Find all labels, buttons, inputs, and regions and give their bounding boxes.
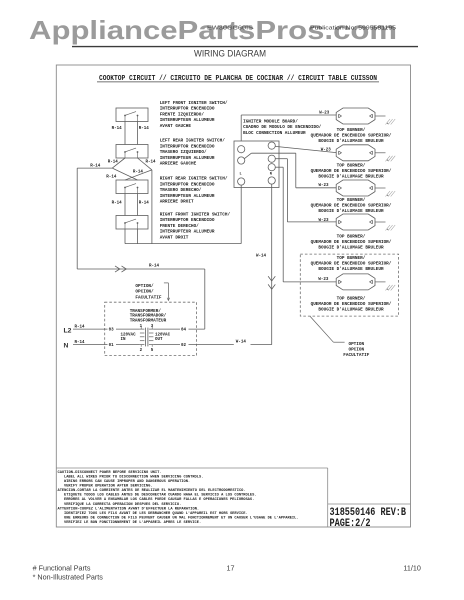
wire W-23 board to burner E1 [241,115,336,141]
switch SW3 right rear igniter switch [116,180,148,194]
svg-text:L2: L2 [64,328,72,335]
svg-text:INTERRUPTEUR ALLUMEUR: INTERRUPTEUR ALLUMEUR [160,156,215,161]
svg-text:FRENTE IZQUIERDO/: FRENTE IZQUIERDO/ [160,112,205,117]
svg-text:IGNITER MODULE BOARD/: IGNITER MODULE BOARD/ [243,119,298,124]
footnote non-illustrated parts [33,573,104,582]
transformer dashed enclosure [105,302,197,355]
title COOKTOP CIRCUIT [97,75,379,83]
svg-text:CUADRO DE MODULO DE ENCENDIDO/: CUADRO DE MODULO DE ENCENDIDO/ [243,125,322,130]
label text igniter module board [243,119,322,136]
svg-text:04: 04 [181,329,187,333]
watermark logo AppliancePartsPros.com [29,15,397,45]
wire switch SW1 to SW2 [125,122,138,145]
svg-text:W-23: W-23 [319,184,330,188]
terminal labels 03 01 04 02 [109,329,187,349]
svg-text:BOUGIE D'ALLUMAGE BRULEUR: BOUGIE D'ALLUMAGE BRULEUR [318,209,384,214]
footnote functional parts [33,563,91,572]
svg-text:INTERRUPTOR ENCENDIDO: INTERRUPTOR ENCENDIDO [160,182,215,187]
svg-text:EW30GC60IS: EW30GC60IS [207,26,253,32]
label text burner E1 [311,128,392,144]
burner igniter E2 top burner [336,145,395,162]
svg-text:QUEMADOR DE ENCENDIDO SUPERIOR: QUEMADOR DE ENCENDIDO SUPERIOR/ [311,262,392,267]
svg-text:INTERRUPTOR ENCENDIDO: INTERRUPTOR ENCENDIDO [160,107,215,112]
svg-text:03: 03 [109,329,115,333]
right rail wire from crossover [151,170,153,244]
svg-text:FACULTATIF: FACULTATIF [343,353,369,358]
wire label W-23 [319,111,330,115]
svg-text:TOP BURNER/: TOP BURNER/ [337,198,366,203]
svg-text:OPCION: OPCION [348,348,364,353]
svg-text:LEFT FRONT IGNITER SWITCH/: LEFT FRONT IGNITER SWITCH/ [160,101,228,106]
terminal label N [270,173,272,177]
wire label W-23 [319,219,330,223]
label text burner E4 [311,235,392,251]
label text for switch SW2 [160,139,226,167]
svg-text:BOUGIE D'ALLUMAGE BRULEUR: BOUGIE D'ALLUMAGE BRULEUR [318,267,384,272]
svg-text:IDENTIFIEZ TOUS LES FILS AVANT: IDENTIFIEZ TOUS LES FILS AVANT DE LES DE… [64,511,248,516]
svg-text:* Non-Illustrated Parts: * Non-Illustrated Parts [33,573,104,582]
leader line to option note [310,316,345,342]
svg-text:R-14: R-14 [139,202,150,206]
svg-text:120VAC: 120VAC [155,333,171,337]
wire transformer 02 output W-14 [153,340,271,344]
svg-text:OPCION/: OPCION/ [135,290,154,295]
svg-text:R-14: R-14 [149,265,160,269]
svg-text:VERIFY PROPER OPERATION AFTER: VERIFY PROPER OPERATION AFTER SERVICING. [64,485,153,489]
svg-text:OPTION/: OPTION/ [135,284,154,289]
svg-text:LEFT REAR IGNITER SWITCH/: LEFT REAR IGNITER SWITCH/ [160,139,226,144]
svg-text:UNE ERREURS DE CONNECTION DE F: UNE ERREURS DE CONNECTION DE FILS PEUVEN… [64,515,299,520]
svg-text:R-14: R-14 [108,161,119,165]
transformer T1 winding symbol [140,327,154,347]
wire W-23 board to burner E4 [275,159,336,222]
switch SW2 left rear igniter switch [116,145,148,159]
bottom rail wire to module board L [125,185,241,243]
svg-text:02: 02 [181,344,187,348]
svg-text:BOUGIE D'ALLUMAGE BRULEUR: BOUGIE D'ALLUMAGE BRULEUR [318,307,384,312]
connector arrows on W-14 wire [268,276,275,289]
wire transformer 04 output [153,328,204,330]
connector arrows on wire [115,266,126,272]
svg-text:N: N [64,342,69,349]
svg-text:W-23: W-23 [318,278,329,282]
svg-text:LABEL ALL WIRES PRIOR TO DISCO: LABEL ALL WIRES PRIOR TO DISCONNECTION W… [64,475,203,479]
label text burner E3 [311,198,392,214]
svg-text:R-14: R-14 [112,202,123,206]
label text burner E5 upper [311,256,392,272]
svg-text:ARRIERE GAUCHE: ARRIERE GAUCHE [160,162,197,167]
svg-text:R-14: R-14 [106,176,117,180]
svg-text:FRENTE DERECHO/: FRENTE DERECHO/ [160,224,199,229]
svg-text:QUEMADOR DE ENCENDIDO SUPERIOR: QUEMADOR DE ENCENDIDO SUPERIOR/ [311,204,392,209]
model number text [207,26,253,32]
supply label N [64,342,69,349]
burner igniter E1 top burner [336,108,395,125]
label text burner E2 [311,164,392,180]
svg-text:W-23: W-23 [319,219,330,223]
wire L2 R-14 to transformer 03 [73,326,140,330]
svg-text:INTERRUPTEUR ALLUMEUR: INTERRUPTEUR ALLUMEUR [160,230,215,235]
svg-text:ATENCION-CORTAR LA CORRIENTE A: ATENCION-CORTAR LA CORRIENTE ANTES DE RE… [58,489,246,493]
svg-text:RIGHT FRONT IGNITER SWITCH/: RIGHT FRONT IGNITER SWITCH/ [160,212,231,217]
svg-text:QUEMADOR DE ENCENDIDO SUPERIOR: QUEMADOR DE ENCENDIDO SUPERIOR/ [311,169,392,174]
svg-text:W-23: W-23 [321,149,332,153]
svg-text:OUT: OUT [155,338,163,342]
wire W-23 board to burner E5 [275,167,336,282]
page number 17 [227,563,235,572]
svg-text:N: N [270,173,272,177]
svg-text:INTERRUPTOR ENCENDIDO: INTERRUPTOR ENCENDIDO [160,144,215,149]
svg-text:TOP BURNER/: TOP BURNER/ [337,296,366,301]
wire label W-23 [319,184,330,188]
svg-text:TOP BURNER/: TOP BURNER/ [337,128,366,133]
svg-text:QUEMADOR DE ENCENDIDO SUPERIOR: QUEMADOR DE ENCENDIDO SUPERIOR/ [311,302,392,307]
wire W-23 board to burner E3 [244,153,336,188]
svg-text:BOUGIE D'ALLUMAGE BRULEUR: BOUGIE D'ALLUMAGE BRULEUR [318,246,384,251]
svg-text:1: 1 [140,325,143,329]
svg-text:W-14: W-14 [236,340,247,344]
svg-text:PAGE:2/2: PAGE:2/2 [330,518,371,530]
wire labels R-14 at crossover [106,161,156,180]
svg-text:VERIFIEZ LE BON FONCTIONNEMENT: VERIFIEZ LE BON FONCTIONNEMENT DE L'APPA… [64,520,201,525]
switch SW4 right front igniter switch [116,216,148,230]
svg-text:AVANT DROIT: AVANT DROIT [160,235,189,240]
svg-text:QUEMADOR DE ENCENDIDO SUPERIOR: QUEMADOR DE ENCENDIDO SUPERIOR/ [311,240,392,245]
svg-text:# Functional Parts: # Functional Parts [33,563,91,572]
wire label R-14 [149,265,160,269]
svg-text:ERRORES AL VOLVER A ENSAMBLAR: ERRORES AL VOLVER A ENSAMBLAR LOS CABLES… [64,498,254,502]
wire label R-14 [112,202,150,206]
wire label R-14 [112,127,150,131]
wire label W-23 [321,149,332,153]
wire SW3 to SW4 [125,194,138,216]
left tap wire R-14 to transformer 04 [77,165,205,329]
svg-text:11/10: 11/10 [403,563,420,572]
supply label L2 [64,328,72,335]
publication number text [310,26,396,32]
module board terminals right column [268,142,275,184]
svg-text:RIGHT REAR IGNITER SWITCH/: RIGHT REAR IGNITER SWITCH/ [160,177,228,182]
header label WIRING DIAGRAM [194,49,266,60]
caution note text [58,471,299,525]
label text for switch SW3 [160,177,228,205]
diagram border frame [56,65,410,527]
svg-text:R-14: R-14 [133,171,144,175]
svg-text:TRASERO IZQUIERDO/: TRASERO IZQUIERDO/ [160,150,207,155]
svg-text:INTERRUPTEUR ALLUMEUR: INTERRUPTEUR ALLUMEUR [160,194,215,199]
svg-text:BOUGIE D'ALLUMAGE BRULEUR: BOUGIE D'ALLUMAGE BRULEUR [318,175,384,180]
date 11/10 [403,563,420,572]
svg-text:WIRING ERRORS CAN CAUSE IMPROP: WIRING ERRORS CAN CAUSE IMPROPER AND DAN… [64,480,190,484]
wire SW4 to bottom rail [125,229,138,244]
label text burner E5 lower [311,296,392,312]
svg-text:CAUTION-DISCONNECT POWER BEFOR: CAUTION-DISCONNECT POWER BEFORE SERVICIN… [58,471,162,475]
svg-text:ARRIERE DROIT: ARRIERE DROIT [160,200,194,205]
svg-text:2: 2 [140,349,143,353]
label text OPTION [343,342,369,358]
svg-text:TRASERO DERECHO/: TRASERO DERECHO/ [160,188,202,193]
svg-text:FACULTATIF: FACULTATIF [135,295,161,300]
svg-text:17: 17 [227,563,235,572]
label text OPTION with leader to transformer [135,283,169,301]
svg-text:ATTENTION-COUPEZ L'ALIMENTATIO: ATTENTION-COUPEZ L'ALIMENTATION AVANT D'… [58,506,200,511]
module board U1 [234,141,279,188]
svg-text:5: 5 [151,349,154,353]
svg-text:120VAC: 120VAC [121,333,137,337]
label text 120VAC OUT [155,333,171,342]
wire N R-14 to transformer 01 [73,341,140,345]
svg-text:IN: IN [121,338,127,342]
svg-text:WIRING DIAGRAM: WIRING DIAGRAM [194,49,266,60]
wire label W-14 [256,255,267,259]
svg-text:BLOC CONNECTION ALLUMEUR: BLOC CONNECTION ALLUMEUR [243,131,306,136]
svg-text:TOP BURNER/: TOP BURNER/ [337,235,366,240]
svg-text:QUEMADOR DE ENCENDIDO SUPERIOR: QUEMADOR DE ENCENDIDO SUPERIOR/ [311,134,392,139]
label text for switch SW4 [160,212,231,240]
svg-text:TOP BURNER/: TOP BURNER/ [337,256,366,261]
svg-text:R-14: R-14 [139,127,150,131]
svg-text:TRANSFORMATEUR: TRANSFORMATEUR [130,318,167,323]
burner igniter E5 top burner [336,274,395,291]
terminal label L [240,173,242,177]
burner igniter E4 top burner [336,214,395,231]
svg-text:W-23: W-23 [319,111,330,115]
svg-text:3: 3 [151,325,154,329]
option dashed enclosure [300,254,398,316]
label text 120VAC IN [121,333,137,342]
wire W-23 board to burner E2 [275,146,336,152]
svg-text:L: L [240,173,242,177]
svg-text:OPTION: OPTION [348,342,364,347]
svg-text:VERIFIQUE LA CORRECTA OPERACIO: VERIFIQUE LA CORRECTA OPERACION DESPUES … [64,503,181,507]
svg-text:INTERRUPTEUR ALLUMEUR: INTERRUPTEUR ALLUMEUR [160,118,215,123]
header rule [72,46,418,48]
transformer pin labels 1 3 2 5 [140,325,154,353]
svg-text:INTERRUPTOR ENCENDIDO: INTERRUPTOR ENCENDIDO [160,218,215,223]
svg-text:R-14: R-14 [146,161,157,165]
svg-text:TOP BURNER/: TOP BURNER/ [337,164,366,169]
module board terminals left column [238,146,245,186]
svg-text:BOUGIE D'ALLUMAGE BRULEUR: BOUGIE D'ALLUMAGE BRULEUR [318,139,384,144]
svg-text:ETIQUETE TODOS LOS CABLES ANTE: ETIQUETE TODOS LOS CABLES ANTES DE DESCO… [64,494,257,498]
label text transformer [130,309,167,324]
svg-text:AVANT GAUCHE: AVANT GAUCHE [160,124,192,129]
wire label W-23 [318,278,329,282]
switch SW1 left front igniter switch [116,108,148,122]
burner igniter E3 top burner [336,180,395,197]
label text for switch SW1 [160,101,228,129]
svg-text:Publication No: 5995581195: Publication No: 5995581195 [310,26,396,32]
revision box [328,504,411,530]
svg-text:R-14: R-14 [112,127,123,131]
wire W-14 from module board N to transformer 02 [271,184,273,345]
wire crossover diamond between SW2 and SW3 [112,158,152,180]
svg-text:01: 01 [109,344,115,348]
caution note separator line [56,468,327,527]
svg-text:W-14: W-14 [256,255,267,259]
